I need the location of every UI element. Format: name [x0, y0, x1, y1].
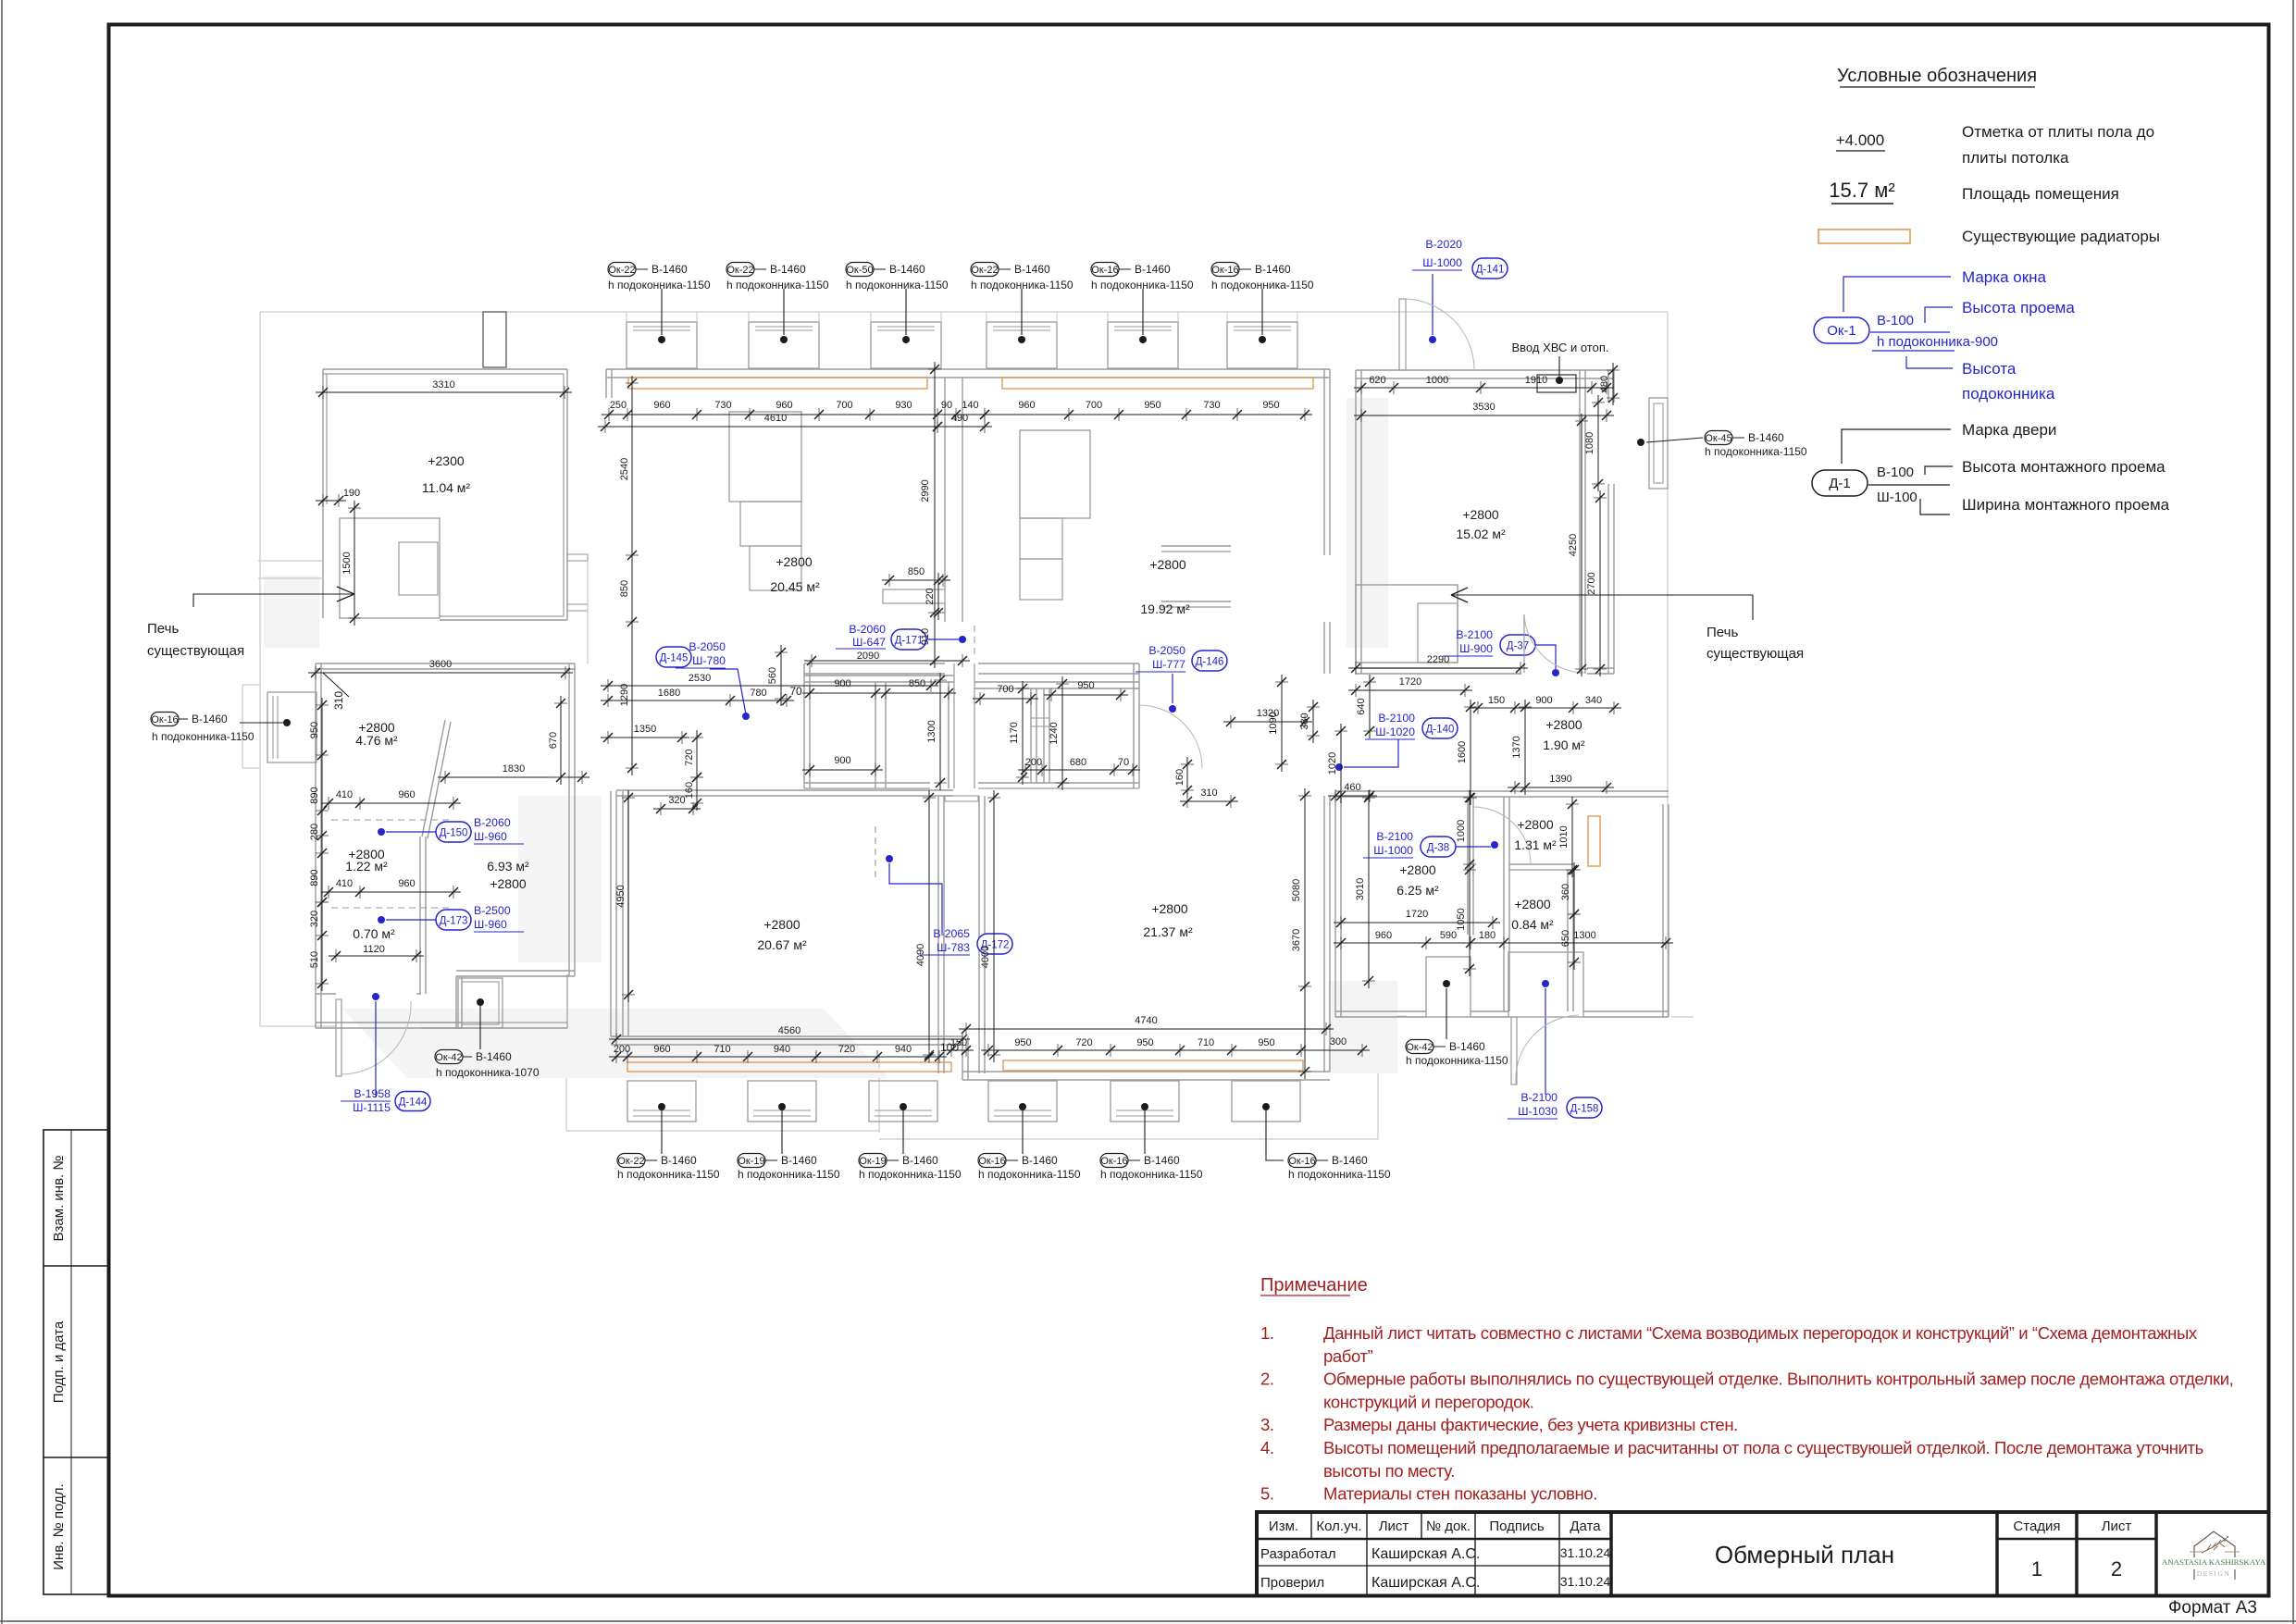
- svg-text:В-1460: В-1460: [1135, 263, 1171, 276]
- svg-text:Ш-1020: Ш-1020: [1375, 725, 1415, 738]
- svg-text:существующая: существующая: [147, 643, 244, 659]
- svg-text:В-1460: В-1460: [1748, 431, 1784, 444]
- svg-text:В-1460: В-1460: [192, 713, 228, 725]
- stove in entry room: [1356, 585, 1458, 663]
- svg-text:В-2060: В-2060: [849, 623, 886, 636]
- svg-text:Ш-1115: Ш-1115: [353, 1101, 391, 1114]
- svg-text:+2300: +2300: [428, 453, 465, 468]
- svg-text:Ш-100: Ш-100: [1877, 490, 1917, 505]
- svg-text:Печь: Печь: [1706, 625, 1738, 640]
- svg-text:710: 710: [1198, 1037, 1214, 1048]
- svg-text:6.93 м²: 6.93 м²: [487, 859, 529, 874]
- stove block: [340, 518, 440, 618]
- chimney: [483, 312, 506, 367]
- svg-text:Д-146: Д-146: [1196, 657, 1224, 668]
- svg-text:DESIGN: DESIGN: [2197, 1569, 2231, 1578]
- svg-text:1120: 1120: [363, 944, 385, 955]
- svg-text:Стадия: Стадия: [2013, 1519, 2060, 1534]
- svg-text:140: 140: [962, 400, 978, 411]
- svg-text:3600: 3600: [429, 659, 452, 670]
- door callouts (blue): [378, 238, 1602, 1119]
- svg-text:Существующие радиаторы: Существующие радиаторы: [1962, 228, 2160, 245]
- svg-text:высоты по месту.: высоты по месту.: [1323, 1461, 1455, 1481]
- svg-text:1600: 1600: [1457, 741, 1468, 763]
- svg-text:Ввод ХВС и отоп.: Ввод ХВС и отоп.: [1512, 341, 1609, 354]
- svg-text:Площадь помещения: Площадь помещения: [1962, 185, 2119, 203]
- svg-text:h подоконника-1070: h подоконника-1070: [436, 1066, 540, 1079]
- svg-text:В-2050: В-2050: [1148, 644, 1185, 657]
- svg-text:220: 220: [925, 588, 936, 604]
- svg-text:Лист: Лист: [2102, 1519, 2132, 1534]
- svg-text:960: 960: [776, 400, 792, 411]
- svg-text:2540: 2540: [619, 458, 630, 480]
- svg-text:ANASTASIA KASHIRSKAYA: ANASTASIA KASHIRSKAYA: [2162, 1557, 2266, 1567]
- corridor walls: [804, 663, 945, 664]
- svg-text:+2800: +2800: [1462, 507, 1499, 522]
- svg-text:620: 620: [1369, 375, 1385, 386]
- svg-text:Д-37: Д-37: [1507, 641, 1529, 652]
- Печь существующая leaders: [147, 587, 1804, 662]
- top windows with callouts: [608, 263, 1314, 390]
- svg-text:Кол.уч.: Кол.уч.: [1316, 1519, 1361, 1534]
- wardrobe room 20.45: [729, 412, 801, 502]
- title block: [1257, 1512, 2269, 1618]
- svg-text:h подоконника-1150: h подоконника-1150: [608, 279, 711, 291]
- svg-text:310: 310: [1200, 787, 1217, 799]
- door arc Д-146: [1139, 705, 1202, 768]
- svg-text:В-2100: В-2100: [1456, 628, 1493, 641]
- bathroom cluster walls: [803, 663, 805, 788]
- svg-text:В-1460: В-1460: [902, 1154, 938, 1167]
- bottom window 6 Ок-16: [1232, 1081, 1300, 1122]
- svg-text:Марка двери: Марка двери: [1962, 421, 2056, 439]
- svg-text:950: 950: [309, 722, 320, 738]
- svg-text:4.: 4.: [1260, 1438, 1274, 1457]
- svg-text:Ок-50: Ок-50: [846, 265, 873, 276]
- svg-text:850: 850: [908, 566, 925, 577]
- svg-text:490: 490: [951, 413, 968, 424]
- svg-text:410: 410: [336, 789, 353, 800]
- svg-text:В-1460: В-1460: [781, 1154, 817, 1167]
- svg-text:3.: 3.: [1260, 1415, 1274, 1434]
- svg-text:1.90 м²: 1.90 м²: [1543, 738, 1585, 752]
- svg-text:Ш-960: Ш-960: [474, 830, 507, 843]
- svg-text:150: 150: [950, 1037, 967, 1048]
- svg-text:Ок-1: Ок-1: [1827, 323, 1856, 339]
- svg-text:В-100: В-100: [1877, 313, 1914, 329]
- left attribute table (Взам. инв. № / Подп. и дата / Инв. № подл.): [43, 1130, 108, 1594]
- svg-text:Д-171: Д-171: [895, 636, 924, 647]
- svg-text:1830: 1830: [503, 763, 525, 775]
- svg-text:640: 640: [1356, 698, 1367, 714]
- svg-text:180: 180: [1479, 930, 1496, 941]
- svg-text:950: 950: [1077, 680, 1094, 691]
- svg-text:Д-141: Д-141: [1476, 265, 1505, 276]
- svg-text:1: 1: [2031, 1557, 2042, 1581]
- svg-text:В-2020: В-2020: [1425, 238, 1462, 251]
- svg-text:h подоконника-1150: h подоконника-1150: [1406, 1054, 1508, 1067]
- svg-text:1300: 1300: [1573, 930, 1595, 941]
- svg-text:Марка окна: Марка окна: [1962, 268, 2047, 286]
- svg-text:1350: 1350: [634, 724, 656, 735]
- svg-text:6.25 м²: 6.25 м²: [1396, 883, 1439, 898]
- svg-text:h подоконника-1150: h подоконника-1150: [1211, 279, 1314, 291]
- svg-text:15.02 м²: 15.02 м²: [1456, 527, 1506, 541]
- svg-text:1080: 1080: [1584, 432, 1595, 454]
- svg-text:+2800: +2800: [1149, 557, 1186, 572]
- svg-text:300: 300: [1330, 1036, 1347, 1048]
- svg-text:200: 200: [614, 1044, 630, 1055]
- bottom exterior wall right: [962, 1071, 1330, 1072]
- central dividing wall: [944, 378, 946, 589]
- svg-text:h подоконника-1150: h подоконника-1150: [1705, 445, 1807, 458]
- svg-text:+2800: +2800: [776, 554, 813, 569]
- svg-text:560: 560: [767, 667, 778, 684]
- svg-text:890: 890: [309, 869, 320, 886]
- svg-text:Ок-16: Ок-16: [1211, 265, 1238, 276]
- partition stubs room 19.92: [1161, 545, 1231, 547]
- svg-text:4.76 м²: 4.76 м²: [355, 733, 398, 748]
- svg-text:Ш-783: Ш-783: [937, 941, 970, 954]
- svg-text:3010: 3010: [1355, 878, 1366, 900]
- svg-text:Ок-22: Ок-22: [971, 265, 998, 276]
- svg-text:Д-140: Д-140: [1426, 725, 1455, 736]
- left window Ок-16: [151, 692, 316, 762]
- svg-text:930: 930: [895, 400, 912, 411]
- svg-text:1320: 1320: [1257, 708, 1279, 719]
- svg-text:+2800: +2800: [1514, 897, 1551, 911]
- svg-text:890: 890: [309, 787, 320, 803]
- svg-text:Ок-16: Ок-16: [1100, 1156, 1127, 1167]
- svg-text:Ок-22: Ок-22: [617, 1156, 644, 1167]
- svg-text:2090: 2090: [857, 651, 879, 662]
- rooms 4.76/1.22/0.70/6.93 walls: [316, 663, 575, 664]
- svg-text:680: 680: [1070, 757, 1086, 768]
- svg-text:Высота: Высота: [1962, 360, 2017, 378]
- svg-text:1000: 1000: [1426, 375, 1448, 386]
- top exterior wall: [606, 368, 1330, 370]
- svg-text:Ок-16: Ок-16: [978, 1156, 1005, 1167]
- svg-text:950: 950: [1014, 1037, 1031, 1048]
- svg-text:0.70 м²: 0.70 м²: [353, 926, 395, 941]
- logo Anastasia Kashirskaya Design: [2194, 1531, 2235, 1580]
- svg-text:1.31 м²: 1.31 м²: [1514, 837, 1557, 852]
- rooms 6.25/1.31/0.84 walls: [1335, 790, 1669, 792]
- svg-text:2990: 2990: [920, 479, 931, 502]
- svg-text:200: 200: [1025, 757, 1042, 768]
- svg-text:650: 650: [1560, 930, 1571, 947]
- svg-text:1680: 1680: [658, 688, 680, 699]
- svg-text:510: 510: [309, 951, 320, 968]
- svg-text:1370: 1370: [1511, 736, 1522, 758]
- svg-text:Ок-19: Ок-19: [738, 1156, 764, 1167]
- svg-text:Условные обозначения: Условные обозначения: [1837, 66, 2037, 86]
- svg-text:Размеры даны фактические, без: Размеры даны фактические, без учета крив…: [1323, 1415, 1738, 1434]
- svg-text:320: 320: [668, 795, 685, 806]
- svg-text:Ок-42: Ок-42: [1406, 1042, 1433, 1053]
- svg-text:31.10.24: 31.10.24: [1560, 1574, 1611, 1589]
- svg-text:160: 160: [684, 782, 695, 799]
- svg-text:плиты потолка: плиты потолка: [1962, 149, 2069, 167]
- svg-text:1240: 1240: [1049, 722, 1060, 744]
- svg-text:280: 280: [309, 824, 320, 840]
- svg-text:1020: 1020: [1327, 752, 1338, 775]
- svg-text:Д-158: Д-158: [1570, 1104, 1599, 1115]
- svg-text:4740: 4740: [1135, 1015, 1157, 1026]
- svg-text:20.67 м²: 20.67 м²: [757, 937, 807, 952]
- svg-text:910: 910: [920, 628, 931, 645]
- bottom-right window Ок-42 and door Д-158: [1406, 952, 1583, 1085]
- svg-text:В-1460: В-1460: [1332, 1154, 1368, 1167]
- svg-text:3670: 3670: [1291, 929, 1302, 951]
- room labels: [345, 453, 1585, 952]
- svg-text:h подоконника-1150: h подоконника-1150: [617, 1168, 720, 1181]
- room 11.04 walls: [323, 368, 567, 370]
- svg-text:Д-38: Д-38: [1427, 843, 1449, 854]
- svg-text:720: 720: [838, 1044, 855, 1055]
- dashed door openings: [331, 819, 452, 821]
- svg-text:Инв. № подл.: Инв. № подл.: [51, 1483, 67, 1569]
- svg-text:2700: 2700: [1586, 572, 1597, 594]
- building context outline: [242, 312, 1694, 1139]
- svg-text:Д-145: Д-145: [660, 653, 689, 664]
- svg-text:+2800: +2800: [1399, 862, 1436, 877]
- svg-text:1170: 1170: [1009, 722, 1020, 744]
- svg-text:Ш-1000: Ш-1000: [1373, 844, 1413, 857]
- svg-text:конструкций и перегородок.: конструкций и перегородок.: [1323, 1392, 1533, 1411]
- wall between 20.67 and 21.37: [937, 796, 939, 1073]
- svg-text:2530: 2530: [689, 673, 711, 684]
- svg-text:В-1460: В-1460: [1449, 1040, 1485, 1053]
- svg-text:850: 850: [909, 678, 925, 689]
- svg-text:h подоконника-1150: h подоконника-1150: [978, 1168, 1081, 1181]
- shadow shading: [264, 576, 319, 648]
- svg-text:250: 250: [610, 400, 627, 411]
- radiator strips top (orange): [628, 378, 927, 389]
- svg-text:900: 900: [834, 755, 850, 766]
- entry door arcs: [1399, 299, 1585, 673]
- svg-text:160: 160: [1174, 769, 1185, 786]
- svg-text:Каширская А.С.: Каширская А.С.: [1371, 1546, 1480, 1562]
- svg-text:1720: 1720: [1399, 676, 1421, 688]
- bottom exterior wall left: [611, 1035, 962, 1037]
- svg-text:В-2050: В-2050: [689, 640, 726, 653]
- svg-text:950: 950: [1262, 400, 1279, 411]
- svg-text:Ок-42: Ок-42: [435, 1052, 462, 1063]
- svg-text:960: 960: [398, 789, 415, 800]
- svg-text:19.92 м²: 19.92 м²: [1140, 601, 1190, 616]
- svg-text:Обмерные работы выполнялись по: Обмерные работы выполнялись по существую…: [1323, 1370, 2233, 1389]
- svg-text:Высоты помещений предполагаемы: Высоты помещений предполагаемые и расчит…: [1323, 1438, 2203, 1457]
- svg-text:Д-150: Д-150: [440, 828, 468, 839]
- svg-text:Материалы стен показаны условн: Материалы стен показаны условно.: [1323, 1484, 1597, 1504]
- svg-text:190: 190: [343, 488, 360, 499]
- svg-text:21.37 м²: 21.37 м²: [1143, 924, 1193, 939]
- svg-text:В-2100: В-2100: [1376, 830, 1413, 843]
- svg-text:h подоконника-1150: h подоконника-1150: [152, 730, 254, 743]
- svg-text:Ш-647: Ш-647: [852, 636, 886, 649]
- svg-text:960: 960: [1018, 400, 1035, 411]
- svg-text:410: 410: [336, 878, 353, 889]
- svg-text:900: 900: [834, 678, 850, 689]
- Ввод ХВС и отоп. label: [1512, 341, 1609, 392]
- svg-text:+4.000: +4.000: [1836, 131, 1884, 149]
- wardrobe room 19.92: [1020, 430, 1090, 518]
- svg-text:Примечание: Примечание: [1260, 1275, 1368, 1295]
- svg-text:Ш-1030: Ш-1030: [1518, 1105, 1558, 1118]
- svg-text:960: 960: [1375, 930, 1392, 941]
- right window Ок-45: [1637, 398, 1807, 489]
- svg-text:1910: 1910: [1525, 375, 1547, 386]
- svg-text:Ок-22: Ок-22: [608, 265, 635, 276]
- wall between room 19.92 and hall: [1323, 398, 1325, 555]
- svg-text:+2800: +2800: [1517, 817, 1554, 832]
- svg-text:1500: 1500: [341, 552, 353, 574]
- svg-text:Ш-777: Ш-777: [1152, 658, 1185, 671]
- svg-text:Отметка от плиты пола до: Отметка от плиты пола до: [1962, 123, 2154, 141]
- svg-text:В-1958: В-1958: [354, 1087, 391, 1100]
- svg-text:1.: 1.: [1260, 1323, 1274, 1343]
- svg-text:3530: 3530: [1472, 402, 1495, 413]
- svg-text:В-1460: В-1460: [1255, 263, 1291, 276]
- svg-text:310: 310: [332, 691, 345, 710]
- svg-text:3310: 3310: [432, 379, 454, 391]
- svg-text:1390: 1390: [1549, 774, 1571, 785]
- svg-text:Высота проема: Высота проема: [1962, 299, 2075, 316]
- svg-text:В-1460: В-1460: [652, 263, 688, 276]
- svg-text:Д-1: Д-1: [1829, 476, 1851, 491]
- svg-text:Ок-16: Ок-16: [1288, 1156, 1315, 1167]
- svg-text:70: 70: [1118, 757, 1129, 768]
- wall between 20.67 and 6.93: [610, 791, 612, 1036]
- svg-text:Ок-45: Ок-45: [1705, 433, 1731, 444]
- svg-text:1290: 1290: [619, 684, 630, 706]
- svg-text:h подоконника-1150: h подоконника-1150: [1091, 279, 1194, 291]
- svg-text:31.10.24: 31.10.24: [1560, 1545, 1611, 1560]
- svg-text:360: 360: [1560, 884, 1571, 900]
- svg-text:работ”: работ”: [1323, 1346, 1373, 1366]
- svg-text:4610: 4610: [764, 413, 787, 424]
- bottom windows with callouts: [617, 1060, 1391, 1181]
- svg-text:Подпись: Подпись: [1489, 1519, 1545, 1534]
- svg-text:5080: 5080: [1291, 879, 1302, 901]
- svg-text:Каширская А.С.: Каширская А.С.: [1371, 1575, 1480, 1591]
- svg-text:Ширина монтажного проема: Ширина монтажного проема: [1962, 496, 2170, 514]
- svg-text:Ш-960: Ш-960: [474, 918, 507, 931]
- svg-text:2290: 2290: [1427, 654, 1449, 665]
- svg-text:Ок-22: Ок-22: [726, 265, 753, 276]
- svg-text:В-100: В-100: [1877, 465, 1914, 480]
- svg-text:Д-144: Д-144: [399, 1097, 428, 1109]
- svg-text:950: 950: [1136, 1037, 1153, 1048]
- svg-text:960: 960: [653, 400, 670, 411]
- svg-text:710: 710: [714, 1044, 730, 1055]
- svg-text:В-1460: В-1460: [1144, 1154, 1180, 1167]
- svg-text:В-2065: В-2065: [933, 927, 970, 940]
- svg-text:730: 730: [1203, 400, 1220, 411]
- svg-text:h подоконника-1150: h подоконника-1150: [1288, 1168, 1391, 1181]
- svg-text:Ш-780: Ш-780: [692, 654, 726, 667]
- svg-text:670: 670: [548, 732, 559, 749]
- svg-text:850: 850: [619, 580, 630, 597]
- dimension chains: [308, 362, 1673, 1079]
- svg-text:h подоконника-1150: h подоконника-1150: [726, 279, 829, 291]
- svg-text:В-2060: В-2060: [474, 816, 511, 829]
- radiator vertical (orange): [1588, 816, 1600, 866]
- svg-text:Формат А3: Формат А3: [2168, 1598, 2257, 1618]
- svg-text:900: 900: [1535, 695, 1552, 706]
- svg-text:В-2500: В-2500: [474, 904, 511, 917]
- svg-text:подоконника: подоконника: [1962, 385, 2055, 403]
- svg-text:Данный лист читать совместно с: Данный лист читать совместно с листами “…: [1323, 1323, 2198, 1343]
- svg-text:Подп. и дата: Подп. и дата: [51, 1320, 67, 1403]
- svg-text:340: 340: [1585, 695, 1602, 706]
- svg-text:4000: 4000: [980, 946, 991, 968]
- door arc room 1.31: [1473, 807, 1531, 864]
- svg-text:+2800: +2800: [1151, 901, 1188, 916]
- svg-text:720: 720: [1075, 1037, 1092, 1048]
- notes Примечание (red): [1260, 1275, 2233, 1504]
- svg-text:480: 480: [1599, 376, 1610, 392]
- svg-text:Взам. инв. №: Взам. инв. №: [51, 1156, 67, 1242]
- svg-text:Обмерный план: Обмерный план: [1715, 1541, 1894, 1568]
- svg-text:Ок-16: Ок-16: [1091, 265, 1118, 276]
- svg-text:1.22 м²: 1.22 м²: [345, 859, 388, 874]
- svg-text:Дата: Дата: [1570, 1519, 1601, 1534]
- svg-text:+2800: +2800: [490, 876, 527, 891]
- svg-text:Проверил: Проверил: [1260, 1575, 1324, 1591]
- svg-text:В-1460: В-1460: [661, 1154, 697, 1167]
- svg-text:730: 730: [714, 400, 731, 411]
- svg-text:В-1460: В-1460: [889, 263, 925, 276]
- svg-text:940: 940: [895, 1044, 912, 1055]
- svg-text:+2800: +2800: [1545, 717, 1582, 732]
- svg-text:20.45 м²: 20.45 м²: [770, 579, 820, 594]
- svg-text:460: 460: [1344, 782, 1360, 793]
- svg-text:h подоконника-1150: h подоконника-1150: [1100, 1168, 1203, 1181]
- svg-text:№ док.: № док.: [1426, 1519, 1471, 1534]
- svg-text:5.: 5.: [1260, 1484, 1274, 1504]
- svg-text:В-1460: В-1460: [770, 263, 806, 276]
- svg-text:+2800: +2800: [763, 917, 800, 932]
- svg-text:Ш-1000: Ш-1000: [1422, 256, 1462, 269]
- svg-text:11.04 м²: 11.04 м²: [422, 480, 471, 495]
- svg-text:700: 700: [1086, 400, 1102, 411]
- svg-text:Д-173: Д-173: [440, 916, 468, 927]
- svg-text:150: 150: [1488, 695, 1505, 706]
- radiator strips bottom (orange): [627, 1062, 951, 1072]
- svg-text:90: 90: [941, 400, 952, 411]
- svg-text:1300: 1300: [926, 720, 937, 742]
- svg-text:1720: 1720: [1406, 909, 1428, 920]
- svg-text:Разработал: Разработал: [1260, 1546, 1336, 1562]
- svg-text:4560: 4560: [778, 1025, 800, 1036]
- svg-text:780: 780: [750, 688, 766, 699]
- svg-text:h подоконника-1150: h подоконника-1150: [738, 1168, 840, 1181]
- svg-text:h подоконника-1150: h подоконника-1150: [846, 279, 949, 291]
- svg-text:1010: 1010: [1558, 825, 1570, 848]
- svg-text:950: 950: [1144, 400, 1160, 411]
- svg-text:960: 960: [653, 1044, 670, 1055]
- svg-text:2.: 2.: [1260, 1370, 1274, 1389]
- svg-text:720: 720: [684, 749, 695, 765]
- svg-text:Ок-16: Ок-16: [151, 714, 178, 725]
- svg-text:2: 2: [2111, 1557, 2122, 1581]
- svg-text:15.7 м²: 15.7 м²: [1829, 179, 1894, 202]
- svg-text:4250: 4250: [1568, 534, 1579, 556]
- svg-text:Ок-19: Ок-19: [859, 1156, 886, 1167]
- svg-text:700: 700: [836, 400, 852, 411]
